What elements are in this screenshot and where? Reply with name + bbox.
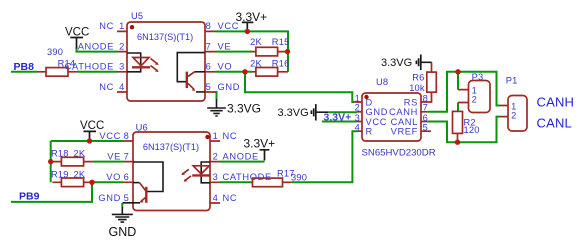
svg-text:3: 3	[119, 62, 125, 72]
svg-text:2: 2	[511, 110, 517, 120]
svg-text:3.3V+: 3.3V+	[324, 111, 352, 123]
svg-text:GND: GND	[366, 107, 389, 117]
svg-text:4: 4	[213, 193, 219, 203]
svg-text:5: 5	[124, 193, 130, 203]
svg-text:CANL: CANL	[391, 117, 418, 127]
svg-text:D: D	[366, 98, 373, 108]
svg-text:390: 390	[291, 173, 307, 183]
svg-text:VO: VO	[218, 62, 233, 72]
svg-text:NC: NC	[99, 21, 114, 31]
svg-text:2: 2	[472, 95, 478, 105]
svg-text:3: 3	[213, 172, 219, 182]
svg-text:7: 7	[206, 41, 212, 51]
svg-text:U5: U5	[131, 11, 143, 21]
svg-text:6N137(S)(T1): 6N137(S)(T1)	[137, 32, 193, 42]
svg-text:R14: R14	[58, 58, 76, 68]
svg-text:VREF: VREF	[391, 127, 418, 137]
svg-text:RS: RS	[404, 98, 418, 108]
svg-text:1: 1	[213, 131, 219, 141]
svg-text:NC: NC	[223, 193, 238, 203]
svg-text:5: 5	[423, 123, 429, 133]
svg-text:6: 6	[206, 62, 212, 72]
svg-text:6N137(S)(T1): 6N137(S)(T1)	[143, 142, 199, 152]
svg-text:ANODE: ANODE	[223, 151, 259, 161]
svg-text:P3: P3	[472, 72, 484, 82]
svg-text:P1: P1	[506, 75, 518, 85]
svg-text:8: 8	[206, 21, 212, 31]
svg-text:VO: VO	[106, 172, 121, 182]
svg-text:VE: VE	[218, 41, 232, 51]
svg-text:3.3V+: 3.3V+	[236, 10, 268, 24]
svg-text:VE: VE	[107, 151, 121, 161]
svg-text:VCC: VCC	[99, 131, 121, 141]
svg-text:GND: GND	[98, 193, 121, 203]
svg-text:390: 390	[47, 47, 63, 57]
svg-text:8: 8	[124, 131, 130, 141]
svg-text:NC: NC	[99, 82, 114, 92]
svg-text:2K: 2K	[250, 37, 262, 47]
svg-text:CANL: CANL	[537, 116, 572, 131]
svg-text:R18: R18	[51, 148, 69, 158]
svg-text:120: 120	[464, 125, 480, 135]
svg-text:2K: 2K	[74, 148, 86, 158]
svg-text:R16: R16	[272, 59, 290, 69]
svg-text:7: 7	[124, 151, 130, 161]
svg-text:3.3V+: 3.3V+	[244, 137, 276, 151]
svg-text:PB8: PB8	[14, 61, 35, 73]
svg-text:ANODE: ANODE	[78, 41, 114, 51]
svg-text:4: 4	[119, 82, 125, 92]
svg-text:2K: 2K	[74, 169, 86, 179]
svg-text:R6: R6	[412, 73, 424, 83]
svg-text:1: 1	[119, 21, 125, 31]
svg-text:R15: R15	[272, 37, 290, 47]
svg-text:CANH: CANH	[389, 107, 418, 117]
svg-text:3: 3	[355, 113, 361, 123]
svg-text:U8: U8	[376, 77, 388, 87]
svg-text:VCC: VCC	[366, 117, 388, 127]
svg-text:4: 4	[355, 123, 361, 133]
svg-text:GND: GND	[218, 82, 241, 92]
svg-text:PB9: PB9	[19, 190, 40, 202]
svg-text:2K: 2K	[250, 59, 262, 69]
svg-text:2: 2	[119, 41, 125, 51]
svg-text:3.3VG: 3.3VG	[278, 107, 309, 119]
svg-text:6: 6	[423, 113, 429, 123]
svg-text:GND: GND	[109, 225, 137, 239]
svg-text:U6: U6	[136, 123, 148, 133]
svg-text:CANH: CANH	[537, 95, 575, 110]
svg-text:R: R	[366, 127, 373, 137]
svg-text:3.3VG: 3.3VG	[227, 102, 261, 116]
svg-text:6: 6	[124, 172, 130, 182]
svg-text:SN65HVD230DR: SN65HVD230DR	[362, 148, 436, 159]
svg-text:3.3VG: 3.3VG	[381, 57, 412, 69]
svg-text:2: 2	[355, 103, 361, 113]
svg-text:2: 2	[213, 151, 219, 161]
svg-text:VCC: VCC	[80, 120, 104, 132]
svg-text:10k: 10k	[409, 83, 425, 93]
svg-text:NC: NC	[223, 131, 238, 141]
svg-text:R19: R19	[51, 169, 69, 179]
svg-text:VCC: VCC	[65, 27, 89, 39]
svg-text:5: 5	[206, 82, 212, 92]
svg-text:7: 7	[423, 103, 429, 113]
svg-text:CATHODE: CATHODE	[223, 172, 272, 182]
